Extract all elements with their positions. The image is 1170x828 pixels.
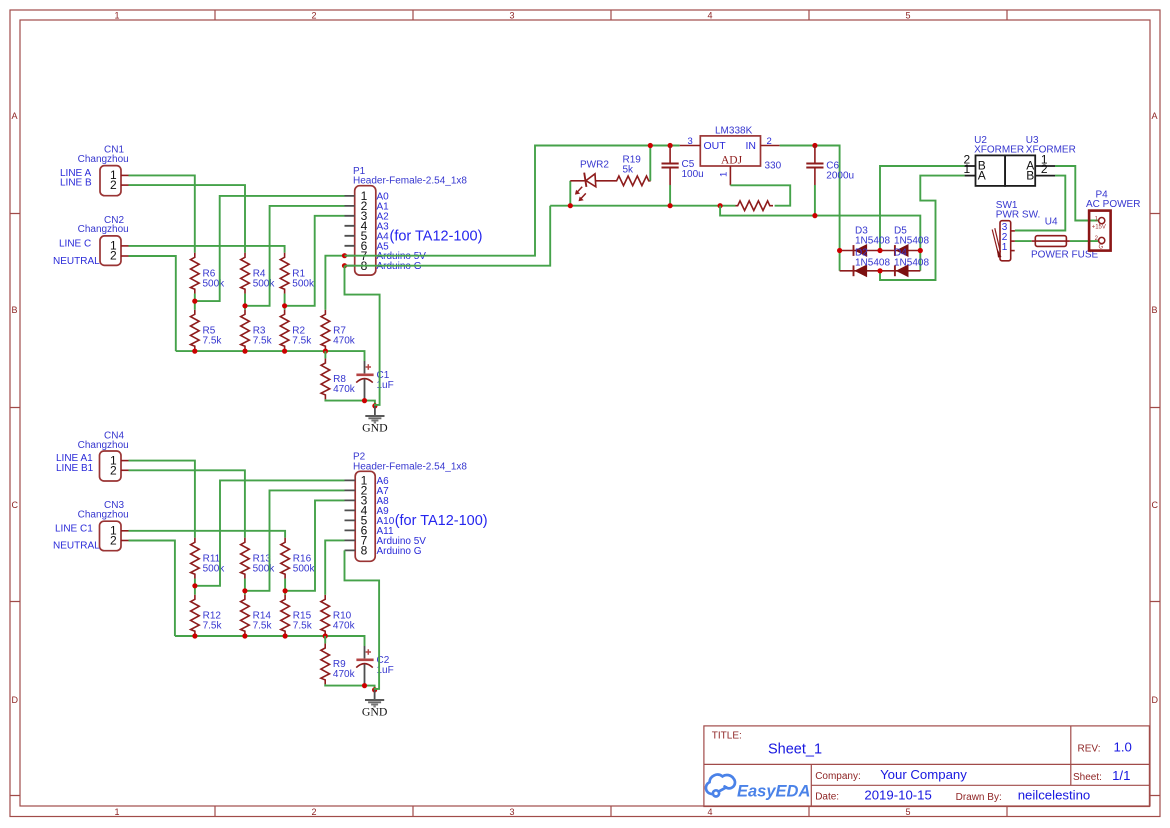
svg-text:B: B (12, 305, 18, 315)
LED PWR2 (570, 173, 614, 202)
svg-text:2: 2 (110, 178, 117, 192)
U3 pin 2 stub (1035, 175, 1055, 177)
CN2 pin 1 stub (121, 245, 129, 247)
diode D3 (854, 265, 867, 277)
svg-text:REV:: REV: (1078, 744, 1101, 755)
junction dot LED-ground rail (568, 203, 573, 208)
wire A8 junction to P2 pin 3 (285, 500, 344, 590)
diode D2 (854, 245, 867, 257)
svg-text:Sheet:: Sheet: (1073, 772, 1102, 783)
svg-text:500k: 500k (293, 563, 316, 574)
junction dot C6 top (812, 143, 817, 148)
CN2 pin 2 stub (121, 255, 129, 257)
wire R6 bottom to junction (194, 294, 196, 310)
junction dot R16-R15 (283, 588, 288, 593)
frame column ticks top (215, 10, 1007, 20)
junction dot C5 top (668, 143, 673, 148)
svg-text:1/1: 1/1 (1112, 768, 1130, 783)
wire A1 junction to P1 pin 2 (245, 206, 345, 306)
junction dot C6-ground rail (812, 213, 817, 218)
P2 net labels (377, 476, 427, 557)
resistor R13 (241, 538, 250, 579)
svg-text:Arduino G: Arduino G (377, 546, 422, 557)
resistor R6 (191, 253, 200, 294)
U2 pin 2 stub (965, 165, 976, 167)
svg-text:A: A (12, 111, 18, 121)
resistor R4 (241, 253, 250, 294)
svg-text:GND: GND (362, 705, 388, 719)
svg-text:7.5k: 7.5k (203, 335, 223, 346)
svg-text:2: 2 (110, 463, 117, 477)
svg-text:470k: 470k (333, 620, 356, 631)
wire A6 junction to P2 pin 1 (195, 480, 345, 585)
transformer U2 box (976, 155, 1006, 186)
junction dot R4-R3 (242, 303, 247, 308)
connector CN1 (100, 166, 121, 196)
svg-text:EasyEDA: EasyEDA (737, 783, 810, 801)
svg-text:2: 2 (1041, 162, 1048, 176)
svg-text:Arduino G: Arduino G (377, 261, 422, 272)
svg-text:Your Company: Your Company (880, 767, 967, 782)
svg-text:XFORMER: XFORMER (1026, 144, 1076, 155)
svg-text:(for TA12-100): (for TA12-100) (390, 228, 483, 244)
transformer U3 box (1005, 155, 1035, 186)
wire R9 top stub (324, 636, 326, 643)
wire U3.1 to P4 pin1 (1055, 166, 1098, 221)
svg-text:7.5k: 7.5k (293, 620, 313, 631)
CN3 pin 2 stub (121, 540, 129, 542)
resistor R11 (191, 538, 200, 579)
frame row ticks left (10, 214, 20, 796)
capacitor C2 polarized (356, 646, 373, 686)
fuse U4 (1032, 236, 1070, 247)
svg-text:7.5k: 7.5k (253, 335, 273, 346)
svg-text:LINE C1: LINE C1 (55, 523, 93, 534)
svg-text:500k: 500k (292, 278, 315, 289)
frame row letters left (12, 111, 19, 705)
svg-text:1.0: 1.0 (1114, 740, 1132, 755)
wire CN2.1 to R1 top (129, 246, 285, 253)
svg-text:G: G (1099, 244, 1104, 250)
svg-text:B: B (1152, 305, 1158, 315)
ground rail lower (720, 206, 920, 271)
P1 net labels (377, 191, 427, 272)
svg-text:5k: 5k (623, 164, 635, 175)
svg-text:1: 1 (114, 807, 119, 817)
CN1 pin 1 stub (121, 174, 129, 176)
resistor R15 (281, 595, 290, 636)
svg-text:2000u: 2000u (826, 171, 854, 182)
regulator U1 LM338K (700, 136, 760, 166)
svg-text:LINE B: LINE B (60, 178, 92, 189)
resistor R1 (280, 253, 289, 294)
svg-text:neilcelestino: neilcelestino (1018, 787, 1091, 802)
junction dot R13-R14 (242, 588, 247, 593)
wire bottom rail lower to C2 (175, 636, 365, 646)
svg-text:1N5408: 1N5408 (855, 236, 890, 247)
wire fuse to P4 pin2 (1070, 240, 1098, 242)
svg-text:Company:: Company: (815, 771, 861, 782)
svg-text:D: D (12, 695, 19, 705)
svg-text:+15V: +15V (1092, 225, 1106, 231)
svg-text:LINE B1: LINE B1 (56, 463, 94, 474)
svg-text:7.5k: 7.5k (203, 620, 223, 631)
svg-text:5: 5 (905, 807, 910, 817)
svg-text:Changzhou: Changzhou (78, 510, 129, 521)
svg-text:NEUTRAL: NEUTRAL (53, 541, 100, 552)
junction dots bottom rail (192, 349, 197, 354)
svg-text:Header-Female-2.54_1x8: Header-Female-2.54_1x8 (353, 176, 467, 187)
junction dot R1-R2 (282, 303, 287, 308)
junction dot P1 pin8 (342, 263, 347, 268)
svg-text:2: 2 (767, 136, 772, 147)
svg-text:500k: 500k (203, 563, 226, 574)
junction dot C2 bottom (362, 683, 367, 688)
resistor R5 (191, 310, 200, 351)
junction dots diode bridge (837, 248, 842, 253)
U3 pin 1 stub (1035, 165, 1055, 167)
svg-text:1: 1 (1002, 242, 1008, 253)
svg-text:2: 2 (311, 11, 316, 21)
header P2 (355, 471, 375, 561)
LM338K pin 3 stub (680, 145, 701, 147)
junction dot R19-rail (648, 143, 653, 148)
capacitor C5 (662, 146, 679, 186)
junction dot R6-R5 (192, 299, 197, 304)
capacitor C6 (806, 146, 823, 186)
svg-text:5: 5 (905, 11, 910, 21)
svg-text:A: A (1152, 111, 1158, 121)
svg-text:Date:: Date: (815, 791, 839, 802)
wire A0 junction to P1 pin 1 (195, 196, 345, 301)
svg-text:7.5k: 7.5k (253, 620, 273, 631)
wire CN3.2 to bottom rail lower (129, 541, 175, 637)
svg-text:C: C (12, 500, 19, 510)
svg-text:470k: 470k (333, 335, 356, 346)
wire R4 bottom to junction (244, 294, 246, 310)
P1 pin numbers (361, 189, 368, 273)
svg-text:1N5408: 1N5408 (894, 257, 929, 268)
svg-text:PWR2: PWR2 (580, 159, 609, 170)
resistor R9 (321, 643, 330, 684)
wire LED cathode to ground rail (569, 181, 571, 206)
svg-text:500k: 500k (203, 278, 226, 289)
junction dot GND node lower (372, 687, 377, 692)
switch SW1 (992, 221, 1015, 261)
wire Arduino G pin8 to ground rail (345, 206, 551, 266)
P2 pin stubs (345, 480, 356, 550)
svg-text:PWR SW.: PWR SW. (996, 209, 1040, 220)
wire C6 bottom to ground rail (814, 185, 816, 216)
svg-text:TITLE:: TITLE: (712, 731, 742, 742)
diode bridge top row lead (840, 250, 921, 252)
diode D4 (895, 245, 908, 257)
diode bridge bottom row lead (840, 270, 921, 272)
frame row letters right (1152, 111, 1159, 705)
svg-text:(for TA12-100): (for TA12-100) (395, 513, 488, 529)
frame column ticks bottom (215, 806, 1007, 817)
connector CN3 (100, 521, 122, 551)
CN4 pin 2 stub (121, 469, 129, 471)
wire R13 bottom to junction (244, 579, 246, 595)
resistor R19 horizontal (614, 176, 650, 186)
connector P4 (1089, 211, 1111, 251)
ground rail upper (550, 205, 735, 207)
svg-text:100u: 100u (682, 169, 704, 180)
wire R9 bottom to ground node lower (325, 684, 374, 690)
resistor R14 (241, 595, 250, 636)
svg-text:U4: U4 (1045, 217, 1058, 228)
wire A2 junction to P1 pin 3 (285, 216, 345, 306)
svg-text:Drawn By:: Drawn By: (956, 792, 1002, 803)
wire CN3.1 to R16 top (129, 531, 286, 538)
svg-text:B: B (1026, 168, 1034, 182)
P1 pin stubs (345, 196, 355, 266)
svg-text:4: 4 (707, 11, 712, 21)
svg-text:330: 330 (765, 160, 782, 171)
svg-text:7.5k: 7.5k (292, 335, 312, 346)
wire CN4.2 to R13 top (129, 470, 245, 537)
wire P2 pin8 to GND node lower (345, 550, 380, 690)
diode D5 (895, 265, 908, 277)
resistor R3 (241, 310, 250, 351)
wire CN2.2 to bottom rail (129, 256, 176, 351)
resistor R330 horizontal (736, 201, 773, 211)
LM338K pin 2 stub (761, 145, 780, 147)
svg-text:D: D (1152, 695, 1159, 705)
wire C5 bottom to ground rail (669, 185, 671, 206)
svg-text:3: 3 (509, 807, 514, 817)
svg-text:8: 8 (361, 544, 368, 558)
wire transformer A to bridge bottom middle (880, 176, 965, 280)
wire bottom rail to C1 (176, 351, 365, 361)
junction dot C1 bottom (362, 398, 367, 403)
svg-text:470k: 470k (333, 669, 356, 680)
svg-text:OUT: OUT (704, 140, 727, 152)
CN4 pin 1 stub (121, 460, 129, 462)
ground symbol bottom section (365, 690, 384, 707)
capacitor C1 polarized (356, 361, 373, 401)
svg-text:Changzhou: Changzhou (78, 154, 129, 165)
svg-text:3: 3 (688, 136, 693, 147)
U2 pin 1 stub (965, 175, 976, 177)
wire R7 top to P1 pin 7 (325, 256, 344, 310)
wire Arduino 5V pin7 to top rail (345, 146, 680, 256)
svg-text:C: C (1152, 500, 1159, 510)
EasyEDA logo cloud (706, 775, 735, 797)
svg-text:1: 1 (719, 172, 730, 177)
resistor R12 (191, 595, 200, 636)
wire R8 top stub (324, 351, 326, 358)
wire SW1.2 to fuse (1015, 240, 1032, 242)
CN1 pin 2 stub (121, 184, 129, 186)
connector CN4 (100, 451, 122, 481)
frame column numbers bottom (114, 807, 910, 817)
svg-text:AC POWER: AC POWER (1086, 199, 1140, 210)
LM338K ADJ pin 1 stub (729, 166, 731, 185)
svg-text:A: A (978, 168, 986, 182)
svg-text:500k: 500k (253, 563, 276, 574)
svg-text:XFORMER: XFORMER (974, 144, 1024, 155)
resistor R16 (281, 538, 290, 579)
svg-text:Changzhou: Changzhou (78, 224, 129, 235)
svg-text:2: 2 (311, 807, 316, 817)
wire R16 bottom to junction (284, 579, 286, 595)
connector CN2 (100, 236, 121, 266)
wire P1 pin8 to GND node (345, 266, 380, 406)
svg-text:LM338K: LM338K (715, 126, 753, 137)
P2 pin numbers (361, 474, 368, 558)
ground symbol top section (365, 406, 384, 423)
svg-text:2: 2 (110, 534, 117, 548)
junction dot ground rail jog (718, 203, 723, 208)
frame row ticks right (1150, 214, 1160, 796)
svg-text:NEUTRAL: NEUTRAL (53, 256, 100, 267)
svg-text:4: 4 (707, 807, 712, 817)
wire ADJ to 330 resistor (730, 185, 790, 205)
svg-text:2019-10-15: 2019-10-15 (864, 787, 931, 802)
resistor R7 (321, 310, 330, 351)
CN3 pin 1 stub (121, 530, 129, 532)
wire A7 junction to P2 pin 2 (245, 490, 345, 590)
wire CN4.1 to R11 top (129, 461, 195, 538)
svg-text:LINE C: LINE C (59, 238, 91, 249)
svg-text:1N5408: 1N5408 (855, 257, 890, 268)
svg-text:IN: IN (746, 140, 757, 152)
svg-text:Changzhou: Changzhou (78, 440, 129, 451)
junction dot GND node (372, 403, 377, 408)
svg-text:2: 2 (110, 249, 117, 263)
svg-text:3: 3 (509, 11, 514, 21)
resistor R2 (280, 310, 289, 351)
wire R19 right to top rail (649, 146, 651, 181)
svg-text:500k: 500k (253, 278, 276, 289)
frame column numbers top (114, 11, 910, 21)
svg-text:Header-Female-2.54_1x8: Header-Female-2.54_1x8 (353, 461, 467, 472)
svg-text:ADJ: ADJ (721, 155, 743, 167)
svg-text:Sheet_1: Sheet_1 (768, 741, 822, 757)
svg-text:GND: GND (362, 421, 388, 435)
svg-text:470k: 470k (333, 384, 356, 395)
wire R10 top to P2 pin 7 (325, 540, 344, 594)
svg-text:1: 1 (114, 11, 119, 21)
junction dot P1 pin7 (342, 253, 347, 258)
resistor R8 (321, 358, 330, 399)
svg-text:1N5408: 1N5408 (894, 236, 929, 247)
title block outline (704, 726, 1150, 807)
wire R11 bottom to junction (194, 579, 196, 595)
junction dots bottom rail lower (192, 633, 197, 638)
wire CN1.2 to R4 top (129, 185, 246, 253)
wire CN1.1 to R6 top (129, 175, 195, 252)
wire transformer B to bridge top middle (880, 166, 965, 251)
wire R8 bottom to ground node (325, 399, 375, 406)
wire U3.2 to SW1 pin3 (1015, 176, 1065, 231)
junction dot R11-R12 (192, 583, 197, 588)
svg-text:1: 1 (964, 162, 971, 176)
wire R1 bottom to junction (284, 294, 286, 310)
wire top rail right (780, 146, 840, 271)
resistor R10 (321, 595, 330, 636)
junction dot C5-ground rail (668, 203, 673, 208)
header P1 (355, 186, 376, 275)
